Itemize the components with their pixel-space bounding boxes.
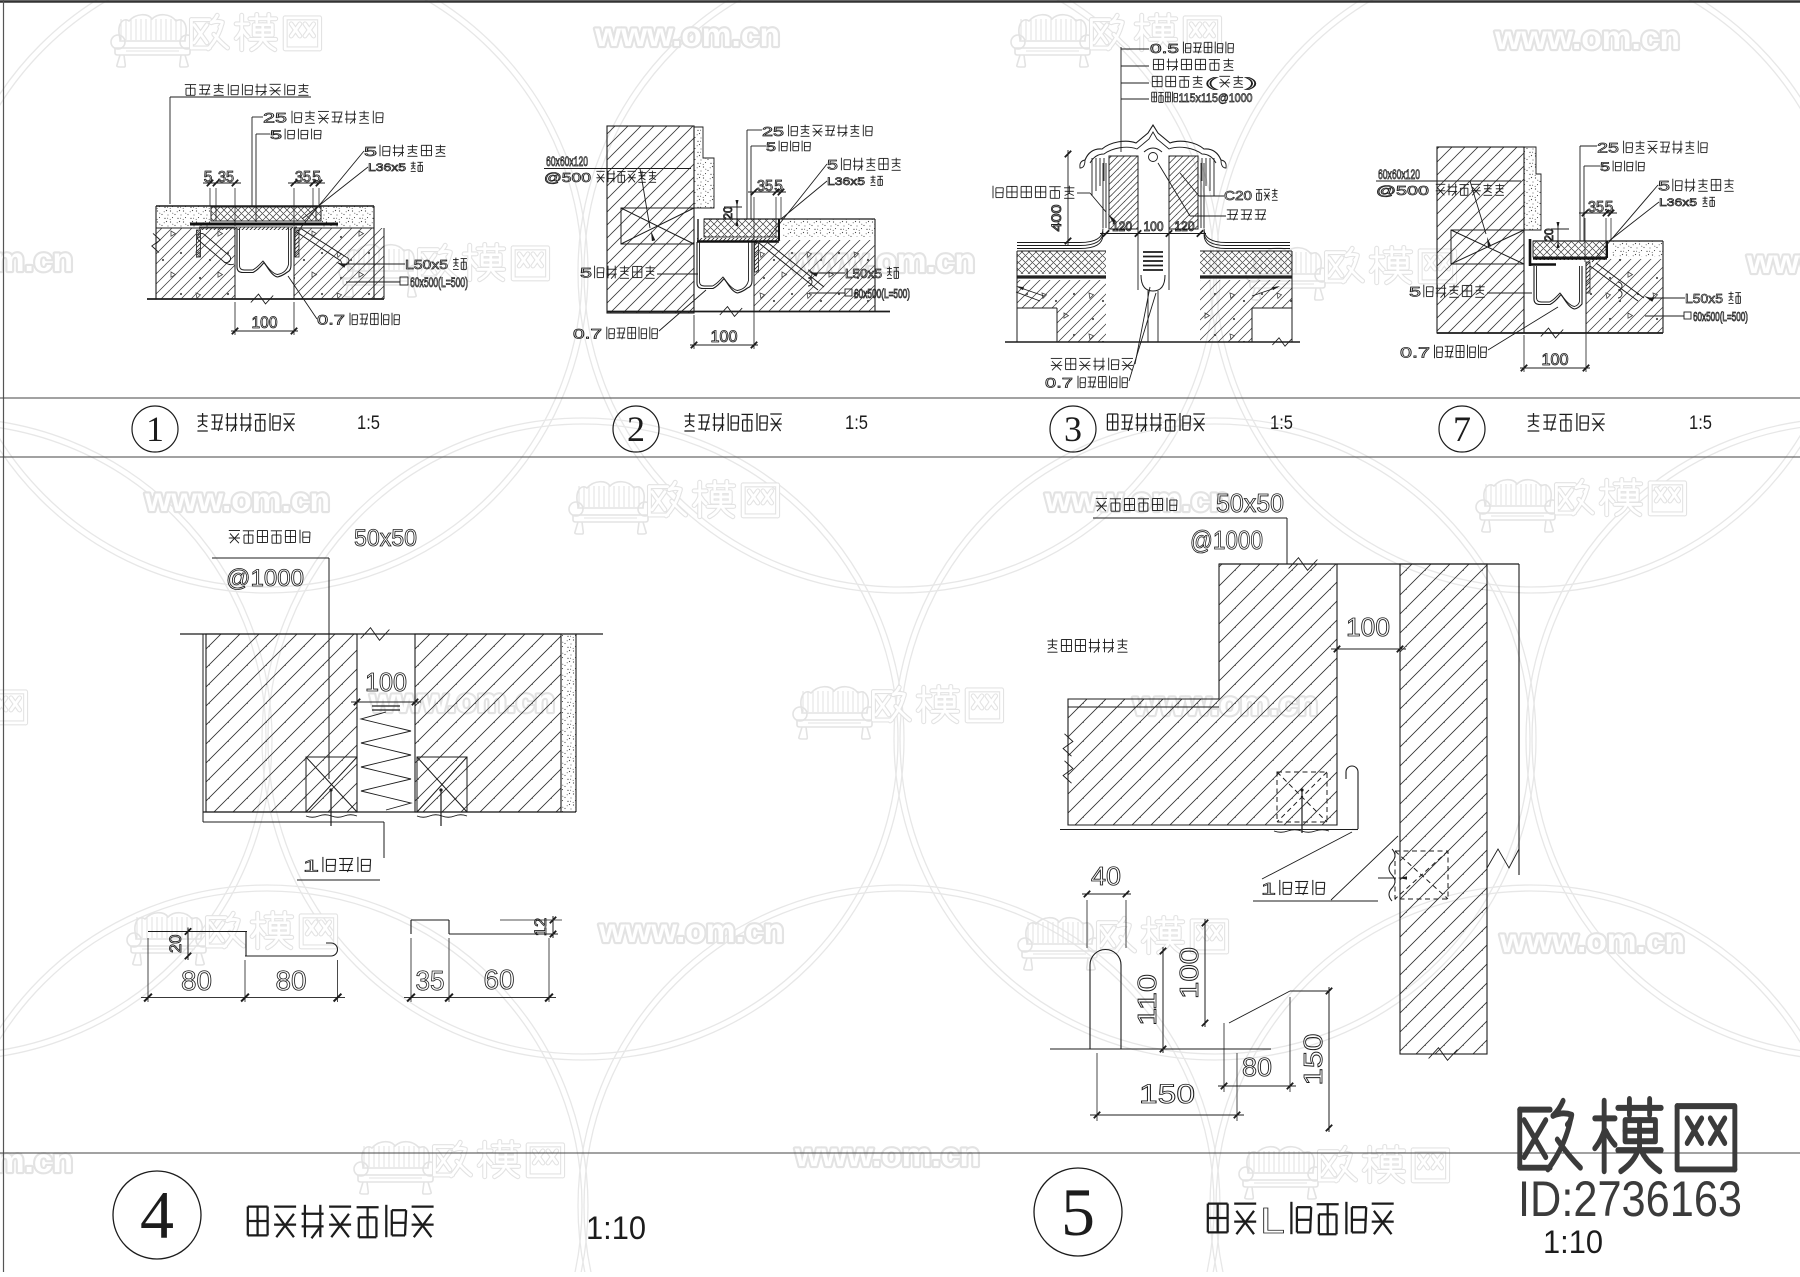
svg-text:35: 35 bbox=[757, 178, 773, 195]
svg-text:110: 110 bbox=[1134, 974, 1162, 1026]
svg-text:www.om.cn: www.om.cn bbox=[598, 912, 784, 949]
svg-text:35: 35 bbox=[295, 169, 311, 186]
svg-text:120: 120 bbox=[1175, 218, 1195, 234]
svg-text:60x500(L=500): 60x500(L=500) bbox=[410, 274, 468, 290]
svg-text:12: 12 bbox=[531, 918, 550, 936]
svg-text:35: 35 bbox=[416, 964, 445, 996]
svg-text:20: 20 bbox=[166, 935, 185, 953]
detail 7: floor deformation joint, 1:5 bbox=[1376, 140, 1748, 372]
svg-text:@1000: @1000 bbox=[226, 565, 304, 592]
svg-text:1:5: 1:5 bbox=[845, 413, 868, 434]
svg-text:80: 80 bbox=[181, 964, 212, 996]
svg-text:L: L bbox=[1260, 1201, 1285, 1241]
svg-text:40: 40 bbox=[1091, 863, 1121, 891]
svg-text:80: 80 bbox=[276, 964, 307, 996]
svg-text:L36x5: L36x5 bbox=[368, 162, 406, 174]
svg-text:100: 100 bbox=[365, 669, 407, 697]
svg-text:60x60x120: 60x60x120 bbox=[546, 153, 588, 169]
svg-text:60x500(L=500): 60x500(L=500) bbox=[854, 286, 910, 301]
svg-text:L50x5: L50x5 bbox=[405, 257, 448, 272]
svg-text:1: 1 bbox=[146, 409, 164, 449]
svg-text:50x50: 50x50 bbox=[354, 525, 417, 552]
svg-text:5: 5 bbox=[204, 169, 213, 186]
svg-text:(: ( bbox=[1205, 75, 1219, 90]
svg-text:www.om.cn: www.om.cn bbox=[144, 481, 330, 518]
svg-text:4: 4 bbox=[140, 1177, 174, 1253]
svg-text:0.5: 0.5 bbox=[1150, 41, 1179, 56]
svg-text:35: 35 bbox=[218, 169, 234, 186]
svg-text:100: 100 bbox=[1542, 350, 1569, 369]
svg-text:5: 5 bbox=[1061, 1174, 1095, 1250]
svg-text:25: 25 bbox=[263, 110, 287, 126]
svg-text:1:10: 1:10 bbox=[1543, 1224, 1603, 1260]
svg-text:5: 5 bbox=[312, 169, 321, 186]
svg-text:150: 150 bbox=[1139, 1079, 1195, 1109]
svg-text:@1000: @1000 bbox=[1190, 527, 1263, 555]
svg-text:www.om.cn: www.om.cn bbox=[1044, 481, 1230, 518]
svg-text:5: 5 bbox=[364, 144, 377, 159]
svg-text:115x115@1000: 115x115@1000 bbox=[1179, 91, 1253, 105]
svg-text:www.om.cn: www.om.cn bbox=[1746, 243, 1800, 280]
svg-text:@500: @500 bbox=[1376, 183, 1429, 198]
svg-text:5: 5 bbox=[1409, 284, 1421, 300]
svg-text:www.om.cn: www.om.cn bbox=[794, 1136, 980, 1173]
svg-text:25: 25 bbox=[1597, 140, 1619, 156]
site logo and ID:2736163 bbox=[1518, 1099, 1742, 1227]
svg-text:2: 2 bbox=[627, 409, 645, 449]
svg-text:5: 5 bbox=[1600, 160, 1610, 174]
svg-text:25: 25 bbox=[762, 124, 784, 139]
svg-text:0.7: 0.7 bbox=[573, 326, 602, 342]
svg-text:50x50: 50x50 bbox=[1216, 490, 1284, 518]
svg-text:): ) bbox=[1246, 75, 1258, 90]
detail 5: exterior wall L-shaped deformation joint, 1:10 bbox=[1047, 490, 1519, 1132]
detail 3: roof horizontal deformation joint, 1:5 bbox=[993, 41, 1300, 391]
svg-text:100: 100 bbox=[1176, 947, 1204, 999]
svg-text:0.7: 0.7 bbox=[1400, 345, 1430, 362]
svg-text:0.7: 0.7 bbox=[317, 312, 345, 328]
svg-text:60x500(L=500): 60x500(L=500) bbox=[1693, 309, 1748, 324]
svg-text:ID:2736163: ID:2736163 bbox=[1518, 1171, 1742, 1227]
svg-text:5: 5 bbox=[766, 140, 776, 154]
svg-text:5: 5 bbox=[827, 157, 838, 173]
svg-text:1: 1 bbox=[303, 857, 319, 876]
svg-text:5: 5 bbox=[1658, 178, 1670, 194]
svg-text:35: 35 bbox=[1588, 199, 1604, 216]
svg-text:C20: C20 bbox=[1224, 188, 1252, 203]
svg-text:www.om.cn: www.om.cn bbox=[594, 16, 780, 53]
svg-text:5: 5 bbox=[580, 265, 592, 281]
svg-text:L50x5: L50x5 bbox=[1685, 291, 1723, 306]
svg-text:1: 1 bbox=[1261, 880, 1276, 899]
svg-text:5: 5 bbox=[270, 128, 283, 142]
svg-text:0.7: 0.7 bbox=[1045, 375, 1073, 391]
svg-text:400: 400 bbox=[1048, 204, 1064, 231]
svg-text:80: 80 bbox=[1242, 1054, 1272, 1082]
svg-text:www.om.cn: www.om.cn bbox=[1499, 922, 1685, 959]
svg-text:100: 100 bbox=[252, 313, 278, 332]
detail title bubbles 1/2/3/7/4/5 with names and scales bbox=[113, 406, 1712, 1260]
svg-text:100: 100 bbox=[711, 327, 738, 346]
svg-text:3: 3 bbox=[1064, 409, 1082, 449]
svg-text:1:5: 1:5 bbox=[357, 413, 380, 434]
svg-text:1:5: 1:5 bbox=[1689, 413, 1712, 434]
svg-text:L36x5: L36x5 bbox=[827, 176, 865, 188]
svg-text:L36x5: L36x5 bbox=[1659, 197, 1697, 209]
svg-text:7: 7 bbox=[1453, 409, 1471, 449]
svg-text:@500: @500 bbox=[544, 170, 591, 185]
svg-text:L50x5: L50x5 bbox=[845, 266, 882, 281]
svg-text:20: 20 bbox=[1544, 229, 1556, 242]
svg-text:5: 5 bbox=[1605, 199, 1614, 216]
svg-text:www.om.cn: www.om.cn bbox=[1494, 19, 1680, 56]
detail 4: exterior wall flush deformation joint, 1:10 bbox=[141, 525, 603, 1002]
svg-text:60: 60 bbox=[484, 963, 515, 995]
svg-text:5: 5 bbox=[774, 178, 783, 195]
svg-text:60x60x120: 60x60x120 bbox=[1378, 166, 1420, 182]
svg-text:20: 20 bbox=[723, 207, 735, 220]
svg-text:1:10: 1:10 bbox=[586, 1210, 646, 1246]
detail 2: floor high-low deformation joint, 1:5 bbox=[544, 124, 910, 349]
svg-text:1:5: 1:5 bbox=[1270, 413, 1293, 434]
svg-text:100: 100 bbox=[1144, 218, 1164, 234]
detail 1: floor horizontal deformation joint, 1:5 bbox=[147, 84, 468, 335]
svg-text:www.om.cn: www.om.cn bbox=[0, 1142, 73, 1179]
svg-text:150: 150 bbox=[1300, 1034, 1328, 1086]
svg-text:100: 100 bbox=[1346, 614, 1390, 642]
svg-text:www.om.cn: www.om.cn bbox=[0, 241, 73, 278]
